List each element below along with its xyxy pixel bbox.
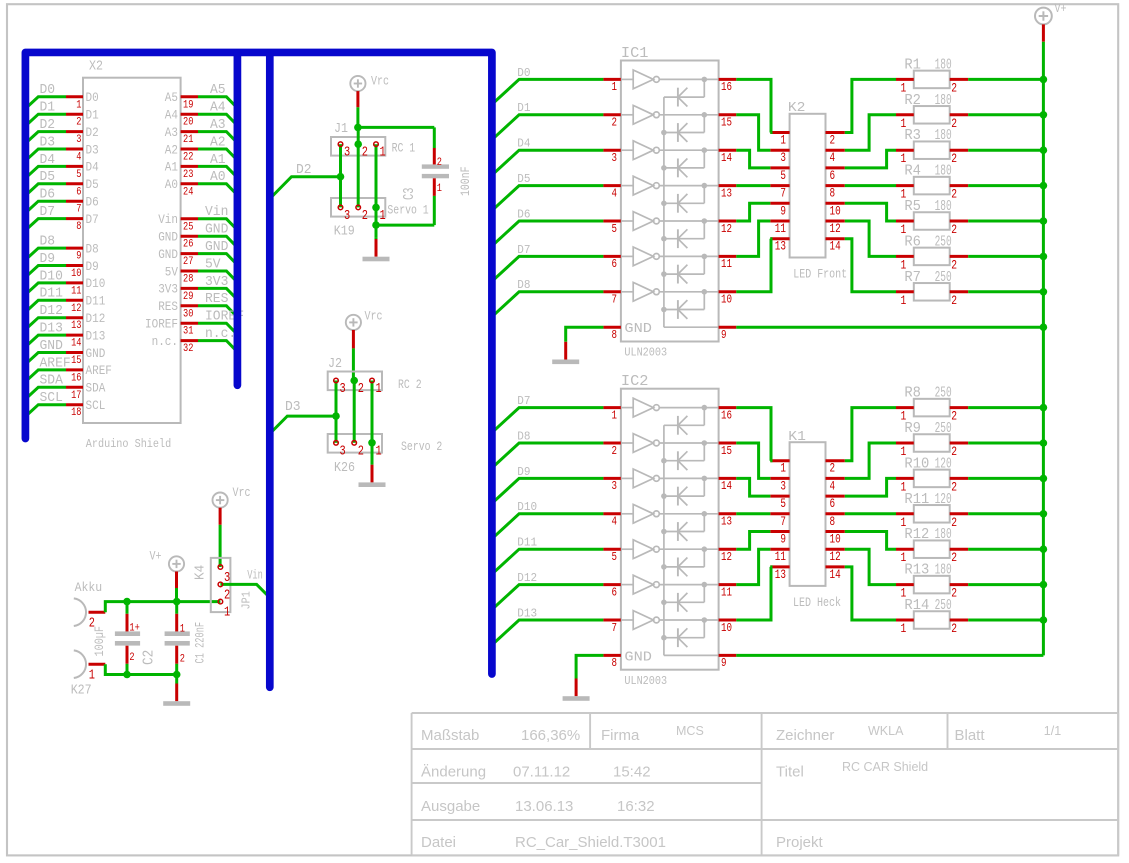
svg-text:Projekt: Projekt bbox=[776, 834, 824, 851]
svg-text:Änderung: Änderung bbox=[421, 764, 486, 781]
svg-text:X2: X2 bbox=[89, 59, 103, 75]
svg-text:1: 1 bbox=[376, 382, 382, 397]
svg-text:11: 11 bbox=[775, 550, 786, 564]
svg-text:A0: A0 bbox=[210, 170, 226, 185]
svg-text:10: 10 bbox=[721, 621, 732, 635]
svg-text:Vrc: Vrc bbox=[365, 310, 383, 324]
svg-text:A4: A4 bbox=[210, 101, 226, 116]
svg-text:4: 4 bbox=[612, 515, 618, 529]
svg-text:D6: D6 bbox=[517, 207, 530, 221]
svg-text:ULN2003: ULN2003 bbox=[624, 346, 667, 360]
svg-text:25: 25 bbox=[183, 221, 193, 233]
svg-text:1: 1 bbox=[376, 444, 382, 459]
svg-text:Datei: Datei bbox=[421, 834, 456, 851]
svg-text:14: 14 bbox=[721, 151, 732, 165]
svg-text:1: 1 bbox=[437, 183, 443, 195]
svg-text:Vin: Vin bbox=[158, 213, 178, 227]
svg-text:C3: C3 bbox=[401, 188, 418, 200]
svg-text:D11: D11 bbox=[40, 287, 63, 302]
svg-text:13: 13 bbox=[721, 515, 732, 529]
svg-text:3: 3 bbox=[340, 444, 346, 459]
svg-text:R13: R13 bbox=[904, 562, 929, 579]
svg-text:15: 15 bbox=[71, 355, 81, 367]
svg-text:K2: K2 bbox=[788, 100, 806, 116]
svg-text:D6: D6 bbox=[40, 188, 56, 203]
svg-text:12: 12 bbox=[71, 303, 81, 315]
svg-text:120: 120 bbox=[935, 491, 952, 508]
svg-text:9: 9 bbox=[780, 204, 786, 218]
svg-text:D3: D3 bbox=[285, 400, 301, 415]
svg-text:2: 2 bbox=[129, 652, 134, 664]
svg-text:GND: GND bbox=[624, 321, 652, 337]
svg-text:2: 2 bbox=[612, 444, 618, 458]
svg-text:D13: D13 bbox=[86, 329, 106, 343]
svg-text:4: 4 bbox=[76, 152, 82, 164]
svg-text:2: 2 bbox=[951, 409, 957, 424]
svg-text:SDA: SDA bbox=[86, 382, 106, 396]
svg-text:1: 1 bbox=[780, 134, 786, 148]
svg-text:GND: GND bbox=[158, 248, 178, 262]
svg-text:A3: A3 bbox=[210, 118, 226, 133]
svg-text:22: 22 bbox=[183, 152, 193, 164]
svg-text:A3: A3 bbox=[165, 126, 178, 140]
svg-text:D7: D7 bbox=[40, 205, 56, 220]
svg-text:MCS: MCS bbox=[676, 724, 704, 738]
svg-text:R12: R12 bbox=[904, 526, 929, 543]
svg-text:D0: D0 bbox=[517, 66, 530, 80]
svg-text:13.06.13: 13.06.13 bbox=[515, 798, 573, 815]
svg-text:14: 14 bbox=[721, 479, 732, 493]
svg-text:3: 3 bbox=[612, 479, 618, 493]
svg-text:12: 12 bbox=[721, 222, 732, 236]
svg-text:D4: D4 bbox=[517, 137, 530, 151]
svg-text:RES: RES bbox=[205, 292, 228, 307]
svg-text:250: 250 bbox=[935, 597, 952, 614]
svg-text:28: 28 bbox=[183, 274, 193, 286]
svg-text:7: 7 bbox=[612, 621, 618, 635]
svg-text:27: 27 bbox=[183, 256, 193, 268]
svg-text:Vrc: Vrc bbox=[233, 486, 251, 500]
svg-text:5: 5 bbox=[76, 169, 81, 181]
svg-text:10: 10 bbox=[721, 293, 732, 307]
svg-text:2: 2 bbox=[437, 157, 442, 169]
svg-text:3: 3 bbox=[344, 209, 350, 224]
svg-text:4: 4 bbox=[612, 186, 618, 200]
svg-text:1: 1 bbox=[612, 408, 618, 422]
svg-text:RC CAR Shield: RC CAR Shield bbox=[842, 760, 928, 774]
svg-text:D8: D8 bbox=[517, 278, 530, 292]
svg-text:A5: A5 bbox=[165, 91, 178, 105]
svg-text:15:42: 15:42 bbox=[613, 764, 651, 781]
svg-text:3: 3 bbox=[344, 146, 350, 161]
svg-text:Servo 1: Servo 1 bbox=[387, 203, 428, 218]
svg-text:1: 1 bbox=[901, 621, 907, 636]
svg-text:A2: A2 bbox=[165, 143, 178, 157]
svg-text:D13: D13 bbox=[40, 322, 63, 337]
svg-text:10: 10 bbox=[830, 204, 841, 218]
svg-text:100µF: 100µF bbox=[92, 626, 107, 657]
svg-text:13: 13 bbox=[721, 186, 732, 200]
svg-text:R2: R2 bbox=[904, 92, 921, 109]
svg-text:J1: J1 bbox=[334, 121, 348, 137]
svg-text:K19: K19 bbox=[334, 224, 355, 240]
svg-text:1/1: 1/1 bbox=[1044, 724, 1061, 738]
svg-text:1: 1 bbox=[89, 669, 95, 684]
svg-text:SCL: SCL bbox=[40, 391, 63, 406]
svg-text:2: 2 bbox=[180, 654, 185, 666]
svg-text:2: 2 bbox=[951, 222, 957, 237]
svg-text:LED Heck: LED Heck bbox=[793, 595, 841, 610]
svg-text:D12: D12 bbox=[40, 304, 63, 319]
svg-text:R7: R7 bbox=[904, 269, 921, 286]
svg-text:250: 250 bbox=[935, 269, 952, 286]
svg-text:9: 9 bbox=[76, 251, 81, 263]
svg-text:RC_Car_Shield.T3001: RC_Car_Shield.T3001 bbox=[515, 834, 666, 851]
svg-text:24: 24 bbox=[183, 186, 194, 198]
svg-text:26: 26 bbox=[183, 239, 193, 251]
svg-text:180: 180 bbox=[935, 198, 952, 215]
svg-text:D5: D5 bbox=[40, 170, 56, 185]
svg-text:13: 13 bbox=[775, 240, 786, 254]
svg-text:D8: D8 bbox=[86, 242, 99, 256]
svg-text:9: 9 bbox=[721, 656, 727, 670]
svg-text:D12: D12 bbox=[86, 312, 106, 326]
svg-text:12: 12 bbox=[830, 222, 841, 236]
svg-text:LED Front: LED Front bbox=[793, 267, 847, 282]
svg-text:C2: C2 bbox=[141, 650, 158, 665]
svg-text:D2: D2 bbox=[86, 126, 99, 140]
svg-text:A1: A1 bbox=[210, 153, 226, 168]
svg-text:D9: D9 bbox=[86, 260, 99, 274]
svg-text:250: 250 bbox=[935, 385, 952, 402]
svg-text:AREF: AREF bbox=[86, 364, 112, 378]
svg-text:GND: GND bbox=[205, 223, 228, 238]
svg-text:7: 7 bbox=[780, 515, 786, 529]
svg-text:SCL: SCL bbox=[86, 399, 106, 413]
svg-text:8: 8 bbox=[612, 656, 618, 670]
svg-text:D0: D0 bbox=[40, 83, 56, 98]
svg-text:1: 1 bbox=[380, 209, 386, 224]
svg-text:4: 4 bbox=[830, 479, 836, 493]
svg-text:11: 11 bbox=[71, 285, 82, 297]
svg-text:D8: D8 bbox=[517, 429, 530, 443]
svg-text:10: 10 bbox=[71, 268, 81, 280]
svg-text:JP1: JP1 bbox=[240, 591, 254, 609]
svg-text:RES: RES bbox=[158, 300, 178, 314]
svg-text:D2: D2 bbox=[40, 118, 56, 133]
svg-text:Blatt: Blatt bbox=[955, 727, 986, 744]
svg-text:J2: J2 bbox=[328, 356, 342, 372]
svg-text:5V: 5V bbox=[205, 257, 221, 272]
svg-text:9: 9 bbox=[721, 328, 727, 342]
svg-text:32: 32 bbox=[183, 343, 193, 355]
svg-text:7: 7 bbox=[780, 187, 786, 201]
svg-text:12: 12 bbox=[830, 550, 841, 564]
svg-text:8: 8 bbox=[76, 221, 81, 233]
svg-text:2: 2 bbox=[76, 117, 81, 129]
svg-text:30: 30 bbox=[183, 308, 193, 320]
svg-text:A5: A5 bbox=[210, 83, 226, 98]
svg-text:166,36%: 166,36% bbox=[521, 727, 580, 744]
svg-text:2: 2 bbox=[951, 515, 957, 530]
svg-text:D3: D3 bbox=[40, 135, 56, 150]
svg-text:16: 16 bbox=[721, 408, 732, 422]
svg-text:18: 18 bbox=[71, 407, 81, 419]
svg-text:IC1: IC1 bbox=[621, 45, 649, 62]
svg-text:1+: 1+ bbox=[129, 622, 139, 634]
svg-text:GND: GND bbox=[158, 231, 178, 245]
svg-text:n.c.: n.c. bbox=[205, 327, 236, 342]
svg-text:Servo 2: Servo 2 bbox=[401, 439, 442, 454]
svg-text:9: 9 bbox=[780, 533, 786, 547]
svg-text:1: 1 bbox=[76, 99, 82, 111]
svg-text:RC 1: RC 1 bbox=[392, 141, 416, 156]
svg-text:A0: A0 bbox=[165, 178, 178, 192]
svg-text:29: 29 bbox=[183, 291, 193, 303]
svg-text:R6: R6 bbox=[904, 233, 921, 250]
svg-text:120: 120 bbox=[935, 455, 952, 472]
svg-text:2: 2 bbox=[612, 116, 618, 130]
svg-text:8: 8 bbox=[612, 328, 618, 342]
svg-text:1: 1 bbox=[380, 146, 386, 161]
svg-text:16: 16 bbox=[721, 80, 732, 94]
svg-text:5V: 5V bbox=[165, 265, 179, 279]
svg-text:A1: A1 bbox=[165, 161, 178, 175]
svg-text:GND: GND bbox=[86, 347, 106, 361]
svg-text:100nF: 100nF bbox=[458, 167, 473, 197]
svg-text:5: 5 bbox=[780, 497, 786, 511]
svg-text:D10: D10 bbox=[40, 269, 63, 284]
svg-text:A2: A2 bbox=[210, 135, 226, 150]
svg-text:Arduino Shield: Arduino Shield bbox=[86, 437, 171, 451]
svg-text:7: 7 bbox=[612, 293, 618, 307]
svg-text:2: 2 bbox=[830, 462, 836, 476]
svg-text:R11: R11 bbox=[904, 491, 929, 508]
svg-text:2: 2 bbox=[362, 209, 368, 224]
svg-text:D8: D8 bbox=[40, 235, 56, 250]
svg-text:2: 2 bbox=[224, 588, 230, 603]
svg-text:23: 23 bbox=[183, 169, 193, 181]
svg-text:31: 31 bbox=[183, 326, 194, 338]
svg-text:2: 2 bbox=[951, 621, 957, 636]
svg-text:Titel: Titel bbox=[776, 764, 804, 781]
svg-text:R5: R5 bbox=[904, 198, 921, 215]
svg-text:AREF: AREF bbox=[40, 356, 71, 371]
svg-text:20: 20 bbox=[183, 117, 193, 129]
svg-text:D6: D6 bbox=[86, 196, 99, 210]
svg-text:SDA: SDA bbox=[40, 374, 64, 389]
svg-text:180: 180 bbox=[935, 163, 952, 180]
svg-text:11: 11 bbox=[775, 222, 786, 236]
svg-text:3V3: 3V3 bbox=[205, 275, 228, 290]
svg-text:6: 6 bbox=[76, 186, 81, 198]
svg-text:Maßstab: Maßstab bbox=[421, 727, 479, 744]
svg-text:n.c.: n.c. bbox=[152, 335, 178, 349]
svg-text:WKLA: WKLA bbox=[868, 724, 904, 738]
svg-text:3V3: 3V3 bbox=[158, 283, 178, 297]
svg-text:2: 2 bbox=[358, 382, 364, 397]
svg-text:D1: D1 bbox=[517, 101, 530, 115]
svg-text:11: 11 bbox=[721, 257, 732, 271]
svg-text:2: 2 bbox=[951, 550, 957, 565]
svg-text:11: 11 bbox=[721, 585, 732, 599]
svg-text:250: 250 bbox=[935, 420, 952, 437]
svg-text:1: 1 bbox=[180, 624, 186, 636]
svg-text:14: 14 bbox=[71, 338, 82, 350]
svg-text:07.11.12: 07.11.12 bbox=[513, 764, 570, 781]
svg-text:ULN2003: ULN2003 bbox=[624, 674, 667, 688]
svg-text:14: 14 bbox=[830, 240, 841, 254]
svg-text:2: 2 bbox=[951, 151, 957, 166]
svg-text:5: 5 bbox=[780, 169, 786, 183]
svg-text:2: 2 bbox=[951, 586, 957, 601]
svg-text:D3: D3 bbox=[86, 143, 99, 157]
svg-text:D0: D0 bbox=[86, 91, 99, 105]
svg-text:10: 10 bbox=[830, 533, 841, 547]
svg-text:D7: D7 bbox=[517, 243, 530, 257]
svg-text:16: 16 bbox=[71, 372, 81, 384]
svg-text:D7: D7 bbox=[517, 394, 530, 408]
svg-text:R8: R8 bbox=[904, 385, 921, 402]
svg-text:3: 3 bbox=[76, 134, 81, 146]
svg-text:Vin: Vin bbox=[247, 568, 263, 583]
svg-text:6: 6 bbox=[612, 585, 618, 599]
svg-text:6: 6 bbox=[830, 169, 836, 183]
svg-text:19: 19 bbox=[183, 99, 193, 111]
svg-text:D11: D11 bbox=[517, 536, 537, 550]
svg-text:6: 6 bbox=[612, 257, 618, 271]
svg-text:2: 2 bbox=[951, 187, 957, 202]
svg-text:Vin: Vin bbox=[205, 205, 228, 220]
svg-text:21: 21 bbox=[183, 134, 194, 146]
svg-text:3: 3 bbox=[780, 479, 786, 493]
svg-text:GND: GND bbox=[40, 339, 63, 354]
svg-text:8: 8 bbox=[830, 187, 836, 201]
svg-text:V+: V+ bbox=[1055, 2, 1067, 16]
svg-text:4: 4 bbox=[830, 151, 836, 165]
svg-text:12: 12 bbox=[721, 550, 732, 564]
svg-text:180: 180 bbox=[935, 562, 952, 579]
svg-text:GND: GND bbox=[624, 649, 652, 665]
svg-text:D9: D9 bbox=[517, 465, 530, 479]
svg-text:GND: GND bbox=[205, 240, 228, 255]
svg-text:5: 5 bbox=[612, 222, 618, 236]
svg-text:D12: D12 bbox=[517, 571, 537, 585]
svg-text:3: 3 bbox=[612, 151, 618, 165]
svg-text:15: 15 bbox=[721, 444, 732, 458]
svg-text:180: 180 bbox=[935, 127, 952, 144]
svg-text:3: 3 bbox=[780, 151, 786, 165]
svg-text:K27: K27 bbox=[71, 683, 92, 699]
svg-text:D11: D11 bbox=[86, 295, 106, 309]
svg-text:R1: R1 bbox=[904, 56, 921, 73]
svg-text:1: 1 bbox=[224, 606, 230, 621]
svg-text:2: 2 bbox=[951, 479, 957, 494]
svg-text:R4: R4 bbox=[904, 163, 921, 180]
svg-text:1: 1 bbox=[612, 80, 618, 94]
svg-text:D1: D1 bbox=[86, 109, 99, 123]
svg-text:6: 6 bbox=[830, 497, 836, 511]
svg-text:D1: D1 bbox=[40, 101, 56, 116]
svg-text:1: 1 bbox=[780, 462, 786, 476]
svg-text:1: 1 bbox=[901, 293, 907, 308]
svg-text:D7: D7 bbox=[86, 213, 99, 227]
svg-text:D4: D4 bbox=[40, 153, 56, 168]
svg-text:2: 2 bbox=[951, 444, 957, 459]
svg-text:Ausgabe: Ausgabe bbox=[421, 798, 480, 815]
svg-text:C1 220nF: C1 220nF bbox=[193, 622, 208, 664]
svg-text:D13: D13 bbox=[517, 606, 537, 620]
svg-text:D5: D5 bbox=[86, 178, 99, 192]
svg-text:K4: K4 bbox=[193, 565, 209, 580]
svg-text:2: 2 bbox=[951, 116, 957, 131]
svg-text:R9: R9 bbox=[904, 420, 921, 437]
svg-text:D10: D10 bbox=[86, 277, 106, 291]
svg-text:180: 180 bbox=[935, 56, 952, 73]
svg-text:IC2: IC2 bbox=[621, 373, 649, 390]
svg-text:Vrc: Vrc bbox=[371, 75, 389, 89]
svg-text:17: 17 bbox=[71, 390, 81, 402]
svg-text:R10: R10 bbox=[904, 455, 929, 472]
svg-text:A4: A4 bbox=[165, 109, 178, 123]
svg-text:8: 8 bbox=[830, 515, 836, 529]
svg-text:K1: K1 bbox=[788, 429, 806, 445]
svg-text:2: 2 bbox=[358, 444, 364, 459]
svg-text:7: 7 bbox=[76, 204, 81, 216]
svg-text:D10: D10 bbox=[517, 500, 537, 514]
svg-text:180: 180 bbox=[935, 526, 952, 543]
svg-text:2: 2 bbox=[951, 293, 957, 308]
svg-text:13: 13 bbox=[775, 568, 786, 582]
svg-text:R14: R14 bbox=[904, 597, 929, 614]
svg-text:D5: D5 bbox=[517, 172, 530, 186]
svg-text:2: 2 bbox=[362, 146, 368, 161]
svg-text:Firma: Firma bbox=[601, 727, 640, 744]
svg-text:IOREF: IOREF bbox=[145, 318, 178, 332]
svg-text:D9: D9 bbox=[40, 252, 56, 267]
svg-text:14: 14 bbox=[830, 568, 841, 582]
svg-text:5: 5 bbox=[612, 550, 618, 564]
svg-text:16:32: 16:32 bbox=[617, 798, 655, 815]
svg-text:3: 3 bbox=[340, 382, 346, 397]
svg-text:RC 2: RC 2 bbox=[398, 377, 422, 392]
svg-text:2: 2 bbox=[830, 134, 836, 148]
svg-text:15: 15 bbox=[721, 116, 732, 130]
svg-text:D4: D4 bbox=[86, 161, 99, 175]
svg-text:13: 13 bbox=[71, 320, 81, 332]
svg-text:180: 180 bbox=[935, 92, 952, 109]
svg-text:Zeichner: Zeichner bbox=[776, 727, 834, 744]
svg-text:V+: V+ bbox=[150, 550, 162, 564]
svg-text:K26: K26 bbox=[334, 460, 355, 476]
svg-text:R3: R3 bbox=[904, 127, 921, 144]
svg-text:Akku: Akku bbox=[75, 580, 103, 595]
svg-text:D2: D2 bbox=[296, 163, 312, 178]
svg-text:2: 2 bbox=[951, 257, 957, 272]
svg-text:250: 250 bbox=[935, 233, 952, 250]
svg-text:2: 2 bbox=[951, 80, 957, 95]
